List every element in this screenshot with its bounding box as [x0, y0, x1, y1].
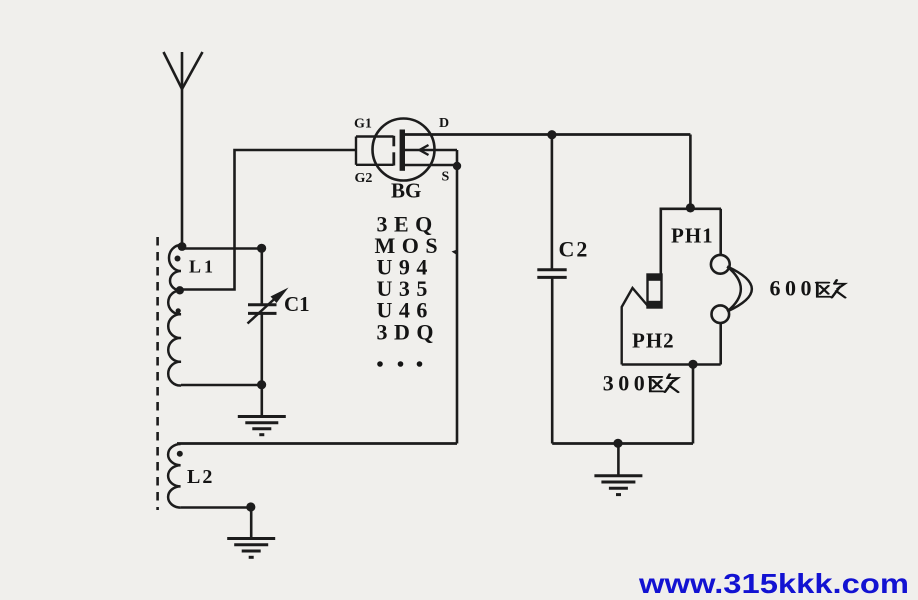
svg-text:PH1: PH1 [671, 224, 714, 248]
svg-text:C2: C2 [559, 237, 590, 262]
node main ground junction [613, 439, 622, 448]
capacitor C2 [537, 135, 566, 444]
node S junction [453, 162, 461, 170]
shield boundary dashed line [156, 237, 159, 510]
ground (main) [594, 444, 642, 495]
svg-text:PH2: PH2 [632, 329, 675, 353]
wire headphone bottom to right rail [692, 365, 695, 444]
node C2 top [547, 130, 556, 139]
node C1 bottom [257, 380, 266, 389]
wire S down to left rail [456, 150, 459, 444]
ground (C1) [238, 417, 286, 435]
svg-text:300: 300 [603, 371, 650, 396]
wire L1 tap to gate leads [180, 150, 356, 290]
svg-text:C1: C1 [284, 292, 310, 316]
right bottom rail [552, 442, 693, 445]
inductor L2 [168, 444, 181, 508]
node mark on S wire [452, 249, 459, 256]
node L1 tap [176, 286, 184, 294]
antenna [164, 52, 203, 246]
node L2 bottom [246, 502, 255, 511]
headphone PH1 earpieces [711, 209, 752, 365]
node L1 top junction [178, 242, 187, 251]
capacitor C1 [248, 249, 277, 418]
wire top rail down to headphones [689, 135, 692, 209]
svg-text:L1: L1 [189, 257, 216, 277]
node C1 top [257, 244, 266, 253]
svg-text:www.315kkk.com: www.315kkk.com [638, 568, 909, 599]
svg-text:600: 600 [770, 275, 817, 300]
plug PH2 [647, 274, 662, 308]
svg-text:L2: L2 [187, 466, 214, 488]
node headphone bottom [688, 360, 697, 369]
svg-text:BG: BG [391, 179, 421, 203]
wire D to headphone branch (top rail) [405, 133, 691, 136]
svg-text:G2: G2 [355, 171, 373, 186]
ground (L2) [227, 508, 275, 558]
wire L1 bottom to C1 bottom [181, 384, 262, 387]
svg-text:S: S [442, 170, 450, 185]
plug cord wire [622, 288, 648, 365]
L1 mid dot [176, 308, 181, 313]
wire headphone box top [661, 209, 721, 275]
svg-text:D: D [439, 116, 449, 131]
L1 polarity dot [175, 256, 181, 262]
left bottom rail (S to L2) [177, 442, 457, 445]
node headphone top [686, 203, 695, 212]
wire headphone box bottom [622, 363, 721, 366]
wire L2 bottom [181, 506, 252, 509]
transistor type list [375, 212, 445, 345]
inductor L1 [168, 245, 181, 386]
svg-text:3DQ: 3DQ [377, 320, 441, 345]
wire L1 top to C1 top [182, 247, 262, 250]
transistor BG (dual-gate MOSFET) [356, 119, 457, 181]
L2 polarity dot [177, 451, 183, 457]
svg-text:G1: G1 [354, 116, 372, 131]
